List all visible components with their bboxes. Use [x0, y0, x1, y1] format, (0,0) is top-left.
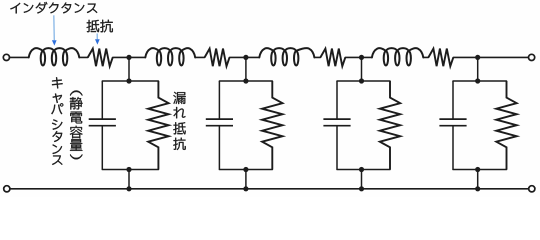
node N2 (junction)	[243, 55, 248, 60]
node (top of parallel pair 4)	[475, 78, 480, 83]
label （静電容量） (electrostatic capacity, vertical)	[70, 91, 83, 160]
node (bottom of parallel pair 2)	[243, 167, 248, 172]
wire	[195, 56, 204, 58]
wire (down to bottom rail 1)	[128, 170, 130, 189]
node (bottom of parallel pair 3)	[359, 167, 364, 172]
capacitor C4	[439, 81, 466, 170]
wire (down to bottom rail 2)	[245, 170, 247, 189]
wire	[362, 56, 372, 58]
capacitor C2	[206, 81, 233, 170]
inductor L4	[372, 48, 423, 65]
label キャパシタンス (capacitance, vertical)	[51, 77, 63, 165]
wire	[478, 56, 529, 58]
node (top of parallel pair 1)	[126, 78, 131, 83]
leak resistor RL1	[148, 81, 168, 170]
wire (down to bottom rail 3)	[361, 170, 363, 189]
wire	[113, 56, 129, 58]
wire	[345, 56, 361, 58]
leak resistor RL3	[380, 81, 400, 170]
node N3 (junction)	[359, 55, 364, 60]
wire	[79, 56, 88, 58]
resistor R2	[205, 49, 230, 67]
wire (parallel top bar 3)	[337, 80, 390, 82]
leak resistor RL4	[496, 81, 516, 170]
node (bottom of parallel pair 4)	[475, 167, 480, 172]
wire	[129, 56, 145, 58]
node (bottom rail junction 3)	[359, 186, 364, 191]
terminal (top-right output)	[529, 54, 535, 60]
terminal (bottom-left)	[4, 186, 10, 192]
wire (down to bottom rail 4)	[477, 170, 479, 189]
node (bottom rail junction 2)	[243, 186, 248, 191]
leak resistor RL2	[262, 81, 282, 170]
terminal (bottom-right)	[529, 186, 535, 192]
wire	[453, 56, 477, 58]
wire (bottom rail)	[10, 188, 529, 190]
label インダクタンス (inductance)	[10, 2, 97, 14]
node (bottom rail junction 1)	[126, 186, 131, 191]
wire (parallel top bar 1)	[102, 80, 158, 82]
wire (parallel top bar 2)	[219, 80, 272, 82]
wire (parallel bottom bar 1)	[102, 169, 158, 171]
wire	[423, 56, 428, 58]
wire (shunt drop from node N1)	[128, 57, 130, 81]
inductor L1	[29, 48, 80, 65]
node (top of parallel pair 2)	[243, 78, 248, 83]
wire	[314, 56, 320, 58]
label 抵抗 (resistance)	[87, 20, 113, 33]
wire (parallel bottom bar 3)	[337, 169, 390, 171]
capacitor C3	[323, 81, 350, 170]
arrow pointer (inductance label to L1)	[52, 15, 57, 45]
wire (parallel bottom bar 4)	[453, 169, 507, 171]
wire	[230, 56, 246, 58]
node (bottom rail junction 4)	[475, 186, 480, 191]
node (bottom of parallel pair 1)	[126, 167, 131, 172]
arrow pointer (resistance label to R1)	[95, 34, 100, 45]
terminal (top-left input)	[3, 54, 9, 60]
wire (parallel top bar 4)	[453, 80, 507, 82]
label 漏れ抵抗 (leakage resistance, vertical)	[173, 92, 185, 150]
wire (shunt drop from node N4)	[477, 57, 479, 81]
resistor R1	[88, 49, 113, 67]
node N1 (junction)	[126, 55, 131, 60]
wire (shunt drop from node N3)	[361, 57, 363, 81]
inductor L3	[259, 48, 314, 65]
node (top of parallel pair 3)	[359, 78, 364, 83]
wire (parallel bottom bar 2)	[219, 169, 272, 171]
wire	[10, 56, 29, 58]
capacitor C1	[89, 81, 116, 170]
wire	[246, 56, 259, 58]
resistor R4	[428, 49, 453, 67]
node N4 (junction)	[475, 55, 480, 60]
inductor L2	[145, 48, 195, 65]
resistor R3	[320, 49, 345, 67]
wire (shunt drop from node N2)	[245, 57, 247, 81]
